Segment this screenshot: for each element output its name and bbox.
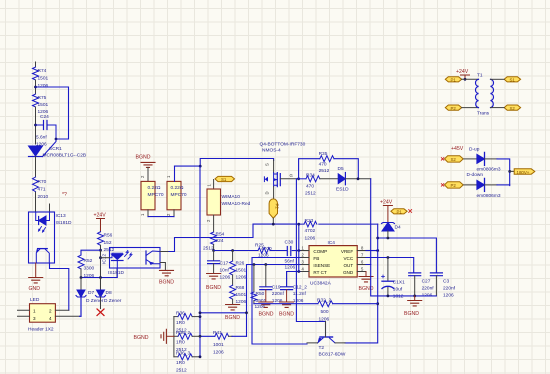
- svg-text:224: 224: [216, 238, 224, 244]
- resistor R26: [230, 251, 247, 286]
- svg-text:MPC70: MPC70: [148, 192, 164, 198]
- VREF riser down to T2 collector: [345, 224, 378, 343]
- svg-text:2010: 2010: [38, 194, 49, 200]
- ground BGND (pin5): [359, 277, 374, 293]
- ground BGND (IC12 emitter): [159, 270, 174, 285]
- svg-text:R41: R41: [213, 330, 222, 336]
- transistor T2 BC817: [307, 322, 346, 358]
- diode D5: [336, 166, 371, 193]
- svg-text:BGND: BGND: [359, 286, 374, 292]
- svg-text:NMOS-4: NMOS-4: [262, 148, 281, 154]
- capacitor box WIMA10: [206, 184, 251, 233]
- wire COMP riser to R23: [298, 224, 300, 271]
- svg-text:GND: GND: [29, 286, 41, 292]
- capacitor C19: [260, 265, 285, 305]
- svg-text:em0806m3: em0806m3: [477, 167, 501, 173]
- connector header LED: [18, 297, 80, 333]
- node R26 top: [231, 249, 234, 252]
- svg-text:C1X1: C1X1: [393, 280, 405, 286]
- wire gate net to OUT riser: [296, 179, 325, 337]
- node junction R74/R75: [34, 86, 37, 89]
- resistor R25: [255, 243, 272, 259]
- ground BGND (C12_2): [279, 302, 294, 318]
- svg-text:R74: R74: [38, 68, 47, 74]
- svg-text:D5: D5: [338, 166, 344, 172]
- resistor box R 0.22 MPC70 (right): [166, 175, 187, 217]
- svg-text:BGND: BGND: [134, 335, 149, 341]
- svg-text:D: D: [264, 191, 269, 194]
- svg-text:1501: 1501: [38, 76, 49, 82]
- wire joining box bottoms: [148, 216, 174, 218]
- port S2 (rectifier in, top): [445, 156, 464, 163]
- svg-text:R35: R35: [319, 151, 328, 157]
- svg-text:1501: 1501: [236, 292, 247, 298]
- svg-text:P1: P1: [451, 78, 457, 83]
- wire ISENSE tap to sense bus: [200, 312, 247, 314]
- svg-text:UC3842A: UC3842A: [310, 281, 332, 287]
- transformer T1 secondary winding: [491, 79, 494, 107]
- svg-text:1: 1: [33, 309, 36, 314]
- svg-text:em0806m3: em0806m3: [477, 193, 501, 199]
- resistor R74: [33, 67, 49, 89]
- svg-text:IC13: IC13: [56, 213, 66, 219]
- svg-text:T2: T2: [319, 345, 325, 351]
- svg-text:R36: R36: [176, 311, 185, 317]
- port S2 (transformer): [504, 105, 520, 111]
- wire cap bottom rail: [371, 265, 437, 296]
- wire: [35, 80, 37, 94]
- svg-text:SCR1: SCR1: [49, 146, 62, 152]
- resistor R32_2: [254, 298, 378, 323]
- svg-text:+45V: +45V: [451, 146, 464, 152]
- svg-text:P2: P2: [451, 183, 457, 188]
- svg-text:IS181D: IS181D: [56, 220, 73, 226]
- svg-text:R54: R54: [216, 232, 225, 238]
- svg-text:VREF: VREF: [341, 249, 353, 254]
- svg-text:R36_2: R36_2: [176, 330, 190, 336]
- svg-text:ES1D: ES1D: [336, 187, 349, 193]
- svg-text:4702: 4702: [305, 228, 316, 234]
- svg-text:10uf: 10uf: [393, 287, 403, 293]
- svg-text:1R0: 1R0: [176, 340, 185, 346]
- ground BGND (caps): [404, 296, 422, 317]
- ground BGND (C19): [259, 302, 274, 318]
- resistor R50: [251, 265, 266, 311]
- svg-text:G: G: [290, 173, 293, 178]
- capacitor C30: [285, 240, 296, 271]
- wire LED cathode rail: [101, 250, 118, 277]
- wire opto out to header: [50, 263, 69, 310]
- svg-text:C17: C17: [220, 261, 229, 267]
- svg-text:R56: R56: [104, 233, 113, 239]
- node gate: [297, 177, 300, 180]
- svg-text:BGND: BGND: [225, 315, 240, 321]
- svg-text:D-up: D-up: [469, 147, 480, 153]
- svg-text:220nf: 220nf: [422, 286, 435, 292]
- svg-text:WIMA10: WIMA10: [222, 194, 241, 200]
- wire: [35, 107, 37, 144]
- svg-text:BGND: BGND: [259, 312, 274, 318]
- svg-text:1001: 1001: [213, 342, 224, 348]
- capacitor C12_2: [281, 272, 308, 305]
- port P2 (drain, vertical): [269, 199, 280, 226]
- pin8 VREF wire: [366, 250, 378, 252]
- ground BGND (rotated, sense): [134, 329, 174, 343]
- svg-text:56nf: 56nf: [285, 259, 295, 265]
- wire: [35, 192, 37, 212]
- svg-text:RT CT: RT CT: [313, 270, 327, 275]
- svg-text:C12_2: C12_2: [293, 285, 307, 291]
- wire FB row: [252, 258, 309, 345]
- capacitor C17: [208, 251, 231, 281]
- svg-text:WIMA10-Red: WIMA10-Red: [222, 201, 251, 207]
- pin6 OUT riser to gate network: [366, 179, 371, 265]
- wire ISENSE row: [247, 265, 310, 337]
- wire: [35, 157, 37, 178]
- svg-text:BGND: BGND: [136, 155, 151, 161]
- svg-text:1206: 1206: [305, 236, 316, 242]
- svg-text:2: 2: [49, 309, 52, 314]
- diode D7 zener: [76, 278, 104, 317]
- svg-text:10nf: 10nf: [220, 268, 230, 274]
- resistor R35 (top parallel): [299, 151, 360, 180]
- node SCR gate: [55, 138, 58, 141]
- port P1: [391, 209, 412, 215]
- svg-text:+24V: +24V: [380, 200, 393, 206]
- resistor R36_3: [174, 351, 202, 374]
- resistor R34: [299, 173, 339, 197]
- svg-text:MPC70: MPC70: [171, 192, 187, 198]
- svg-text:Q4-BOTTOM-IRF730: Q4-BOTTOM-IRF730: [260, 142, 306, 148]
- resistor R75: [33, 94, 49, 115]
- svg-text:BGND: BGND: [206, 285, 221, 291]
- wire row COMP: [214, 250, 309, 252]
- svg-text:1R0: 1R0: [176, 320, 185, 326]
- node R56 bottom: [99, 249, 102, 252]
- svg-text:VCC: VCC: [343, 256, 353, 261]
- wire pin stub: [49, 204, 51, 212]
- svg-text:S1: S1: [510, 78, 516, 83]
- wire IC12 collector up to R54 row: [169, 224, 299, 251]
- no-ERC markers: [441, 158, 444, 187]
- svg-text:BGND: BGND: [279, 312, 294, 318]
- wire P2 to coil: [462, 107, 479, 109]
- svg-text:R26: R26: [236, 261, 245, 267]
- svg-text:D4: D4: [395, 225, 401, 231]
- optocoupler IC12: [101, 248, 161, 278]
- svg-text:R23: R23: [305, 218, 314, 224]
- svg-text:+24V: +24V: [94, 213, 107, 219]
- wire S1 to WIMA: [213, 180, 215, 190]
- svg-text:R36_3: R36_3: [176, 351, 190, 357]
- svg-text:BGND: BGND: [404, 311, 419, 317]
- svg-text:IS181D: IS181D: [108, 270, 125, 276]
- svg-text:R32_2: R32_2: [317, 298, 331, 304]
- pin7 VCC rail to caps: [366, 258, 414, 273]
- svg-text:C3: C3: [443, 279, 449, 285]
- wire P1 to coil: [462, 78, 479, 80]
- svg-text:BC817-6DW: BC817-6DW: [319, 352, 346, 358]
- capacitor C1X1 (polarized): [382, 258, 406, 300]
- wire loop to SCR gate: [36, 87, 69, 139]
- svg-text:1206: 1206: [443, 293, 454, 299]
- svg-text:D Zener: D Zener: [104, 298, 122, 304]
- ground BGND (C17): [206, 274, 221, 292]
- wire top stub: [35, 62, 37, 67]
- svg-text:180V+: 180V+: [517, 170, 530, 175]
- svg-text:R52: R52: [84, 258, 93, 264]
- svg-text:1206: 1206: [272, 298, 283, 304]
- svg-text:D Zener: D Zener: [86, 298, 104, 304]
- svg-text:1501: 1501: [38, 102, 49, 108]
- transformer T1 primary winding: [475, 79, 478, 107]
- node R54 bottom: [212, 249, 215, 252]
- capacitor C27: [409, 273, 435, 299]
- svg-text:152: 152: [104, 240, 112, 246]
- svg-text:C24: C24: [40, 114, 49, 120]
- svg-text:C27: C27: [422, 279, 431, 285]
- svg-text:Header 1X2: Header 1X2: [28, 327, 54, 333]
- port S1: [215, 176, 235, 182]
- port 180V+: [510, 169, 535, 175]
- svg-text:Trans: Trans: [477, 111, 490, 117]
- power +24V (transformer): [456, 69, 470, 81]
- resistor R56: [98, 232, 115, 253]
- resistor R54: [203, 232, 225, 252]
- svg-text:471: 471: [38, 187, 46, 193]
- svg-text:0.22Ω: 0.22Ω: [171, 185, 184, 191]
- svg-text:*?: *?: [62, 192, 67, 198]
- svg-text:T1: T1: [477, 73, 483, 79]
- diode D4 zener: [382, 223, 401, 239]
- svg-text:1206: 1206: [84, 273, 95, 279]
- ground BGND (R68): [225, 305, 240, 322]
- power +24V (left): [94, 213, 107, 232]
- svg-text:IC4: IC4: [328, 240, 336, 246]
- svg-text:500: 500: [321, 309, 329, 315]
- svg-text:+24V: +24V: [456, 69, 469, 75]
- resistor box R 0.22 MPC70 (left): [140, 175, 164, 217]
- transistor Q4 MOSFET: [260, 142, 306, 199]
- no-ERC red X at D8: [97, 309, 104, 316]
- svg-text:GND: GND: [343, 270, 354, 275]
- ground BGND (top middle): [136, 155, 156, 182]
- svg-text:220nf: 220nf: [443, 286, 456, 292]
- svg-text:1206: 1206: [38, 83, 49, 89]
- capacitor C24: [36, 114, 57, 148]
- svg-text:R70: R70: [38, 179, 47, 185]
- svg-text:1R0: 1R0: [176, 360, 185, 366]
- resistor R70: [33, 177, 49, 200]
- op-amp IC4 UC3842A box: [301, 240, 366, 287]
- svg-text:2512: 2512: [305, 191, 316, 197]
- svg-text:P2: P2: [275, 204, 280, 210]
- svg-text:R68: R68: [236, 285, 245, 291]
- port S1 (transformer): [504, 77, 520, 83]
- svg-text:R50: R50: [256, 291, 265, 297]
- node C24 branch: [34, 124, 37, 127]
- svg-text:OUT: OUT: [343, 263, 353, 268]
- svg-text:1206: 1206: [285, 265, 296, 271]
- svg-text:4700: 4700: [261, 246, 272, 252]
- svg-text:3300: 3300: [84, 266, 95, 272]
- svg-text:1206: 1206: [319, 317, 330, 323]
- svg-text:0.22Ω: 0.22Ω: [148, 185, 161, 191]
- svg-text:C19: C19: [272, 285, 281, 291]
- svg-text:D-down: D-down: [467, 172, 484, 178]
- resistor R36_2: [174, 330, 200, 353]
- svg-text:1206: 1206: [293, 298, 304, 304]
- diode D-down: [467, 172, 501, 199]
- svg-text:R34: R34: [306, 173, 315, 179]
- resistor R68: [230, 285, 247, 305]
- svg-text:MCR08BLT1G--C2B: MCR08BLT1G--C2B: [43, 152, 87, 158]
- wire source rail: [175, 159, 274, 167]
- svg-text:4: 4: [49, 316, 52, 321]
- node pin1: [297, 249, 300, 252]
- svg-text:1501: 1501: [236, 268, 247, 274]
- svg-text:D8: D8: [106, 290, 112, 296]
- svg-text:S2: S2: [451, 157, 457, 162]
- wire R36 left bus: [173, 317, 175, 357]
- wire sense bus vertical: [199, 166, 201, 357]
- svg-text:11.2nf: 11.2nf: [293, 291, 307, 297]
- wire RT/CT row: [287, 272, 309, 287]
- wire to R52: [81, 250, 101, 255]
- svg-text:LED: LED: [30, 297, 40, 303]
- svg-text:1206: 1206: [236, 275, 247, 281]
- resistor R23: [299, 218, 378, 242]
- wire header pin4 to D7: [80, 297, 82, 316]
- svg-text:ISENSE: ISENSE: [313, 263, 330, 268]
- svg-text:2512: 2512: [176, 368, 187, 374]
- svg-text:1812: 1812: [393, 294, 404, 300]
- svg-text:FB: FB: [313, 256, 319, 261]
- svg-text:1206: 1206: [213, 350, 224, 356]
- resistor R52: [78, 255, 95, 279]
- svg-text:P2: P2: [451, 106, 457, 111]
- svg-text:P1: P1: [397, 210, 403, 215]
- svg-text:470: 470: [319, 162, 327, 168]
- svg-text:COMP: COMP: [313, 249, 327, 254]
- wire +24V row: [378, 238, 437, 272]
- diode D-up: [469, 147, 501, 173]
- svg-text:S2: S2: [510, 106, 516, 111]
- svg-text:1206: 1206: [220, 275, 231, 281]
- svg-text:IC12: IC12: [102, 254, 108, 264]
- resistor R36: [174, 311, 202, 334]
- pin stubs IC12 out: [160, 252, 169, 271]
- port P1 (transformer): [445, 77, 461, 83]
- node rail / sense bus: [199, 165, 202, 168]
- svg-text:2512: 2512: [319, 168, 330, 174]
- optocoupler IC13: [29, 212, 73, 263]
- svg-text:3: 3: [33, 316, 36, 321]
- svg-text:S1: S1: [221, 177, 227, 182]
- port P2 (transformer): [445, 105, 461, 111]
- pin5 GND to ground: [365, 272, 367, 277]
- thyristor SCR1: [29, 139, 87, 158]
- svg-text:220nf: 220nf: [272, 291, 285, 297]
- svg-text:S: S: [264, 163, 269, 166]
- svg-text:R75: R75: [38, 95, 47, 101]
- capacitor C3: [430, 273, 455, 299]
- svg-text:470: 470: [306, 184, 314, 190]
- svg-text:3901: 3901: [256, 298, 267, 304]
- diode D8 zener: [96, 278, 122, 309]
- port P2 (rectifier in, bottom): [445, 182, 464, 189]
- svg-text:D7: D7: [88, 290, 94, 296]
- resistor R41: [199, 330, 247, 356]
- svg-text:5.6nf: 5.6nf: [36, 135, 47, 141]
- wire right box top to rail: [174, 166, 176, 181]
- ground GND: [29, 263, 43, 292]
- svg-text:C30: C30: [285, 240, 294, 246]
- svg-text:BGND: BGND: [159, 280, 174, 286]
- power +24V (right): [380, 200, 393, 223]
